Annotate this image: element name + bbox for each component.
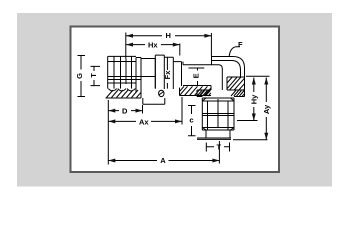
extension line Ax right — [181, 97, 183, 125]
tube body top edge — [183, 65, 222, 90]
left hex nut top chamfer — [108, 62, 136, 84]
hatching — [107, 77, 245, 98]
arrow A left — [108, 159, 115, 163]
leg tube end — [206, 130, 230, 138]
tube body bottom edge — [183, 85, 211, 87]
arrow A right — [212, 159, 219, 163]
hatch: under left nut band — [107, 90, 142, 98]
hatch: leg left flange — [197, 91, 211, 97]
svg-text:T: T — [89, 73, 98, 78]
dim line H — [126, 35, 211, 37]
svg-text:c: c — [189, 116, 193, 125]
left assembly bottom line — [106, 97, 142, 99]
extension line Hx right — [179, 44, 181, 56]
leg flange — [197, 90, 245, 97]
svg-text:Ay: Ay — [262, 104, 271, 114]
elbow left edge — [211, 57, 213, 65]
c bracket — [188, 106, 196, 136]
arrow H right — [204, 34, 211, 38]
dim line Ax — [108, 120, 182, 122]
leg nut chamfers — [202, 98, 234, 130]
nut seat scallop arcs — [108, 89, 135, 91]
tube flange bottom — [180, 88, 212, 96]
T bracket left — [91, 66, 101, 85]
svg-text:D: D — [122, 107, 128, 116]
hatch: leg right flange — [231, 91, 245, 97]
svg-text:T: T — [217, 143, 222, 152]
extension line A right — [218, 141, 220, 164]
dim line A — [108, 160, 219, 162]
leg bore centre line — [217, 99, 219, 128]
cap ring — [155, 55, 164, 89]
arrow Ax left — [108, 119, 115, 123]
svg-text:G: G — [75, 73, 84, 79]
elbow body outer profile — [212, 57, 245, 91]
Hy ref line top — [246, 75, 270, 77]
svg-text:E: E — [192, 73, 201, 78]
arrowheads — [108, 34, 268, 163]
elbow body inner profile — [212, 61, 241, 78]
union body — [141, 59, 155, 89]
leg bottom face band — [197, 138, 231, 139]
Fx facet line — [166, 57, 168, 88]
arrow Ay top — [264, 78, 268, 85]
extension line H/Hx left — [125, 33, 127, 59]
left hex nut bore lines — [108, 77, 156, 80]
arrow Ax right — [175, 119, 182, 123]
leg hex nut — [202, 98, 234, 130]
Hy dim line — [253, 78, 255, 121]
gray panel — [17, 13, 332, 187]
Hy ref line bottom — [237, 120, 258, 122]
arrow Hx left — [126, 43, 133, 47]
Ay dim line — [265, 78, 267, 140]
elbow bore left wall — [210, 86, 212, 91]
elbow corner hatch block border — [227, 77, 245, 90]
svg-text:Hy: Hy — [249, 94, 258, 104]
arrow D right — [136, 109, 143, 113]
svg-text:F: F — [238, 40, 243, 49]
extension line bottom left — [107, 100, 109, 165]
arrow Hy bottom — [252, 114, 256, 121]
step shoulder ring — [173, 62, 183, 86]
svg-text:A: A — [160, 156, 166, 165]
svg-text:H: H — [166, 31, 171, 40]
Ay ref line bottom — [233, 139, 268, 141]
nut centre facet through line — [125, 59, 127, 85]
extension line H right — [210, 33, 212, 57]
arrow H left — [126, 34, 133, 38]
cap seat hatch ellipse — [159, 90, 164, 96]
hatch: elbow corner block — [227, 77, 245, 90]
left hex nut outline — [108, 56, 136, 88]
collar ring — [136, 58, 141, 99]
E bracket — [189, 68, 205, 86]
svg-text:Fx: Fx — [163, 70, 172, 80]
left hex nut facet lines — [114, 56, 132, 88]
ring2 — [164, 57, 173, 89]
F leader — [229, 47, 240, 56]
hatch: tube cross-section left — [180, 86, 212, 95]
svg-text:Ax: Ax — [139, 117, 149, 126]
extension line D right — [142, 105, 144, 114]
leg hex nut facets — [208, 101, 229, 130]
arrow Ay bottom — [264, 133, 268, 140]
dim line Hx — [126, 44, 180, 46]
G bracket — [78, 56, 86, 97]
arrow D left — [108, 109, 115, 113]
dim line D — [108, 110, 142, 112]
white drawing box — [71, 27, 280, 173]
T bracket bottom — [206, 143, 229, 152]
arrow Hy top — [252, 78, 256, 85]
svg-text:Hx: Hx — [148, 40, 158, 49]
union bottom deck — [143, 98, 165, 104]
arrow Hx right — [173, 43, 180, 47]
